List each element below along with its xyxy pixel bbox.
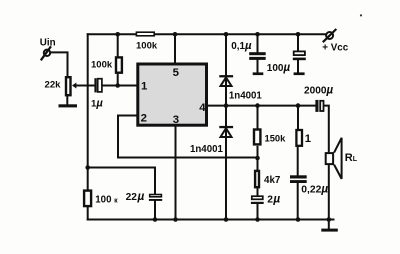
svg-text:5: 5 <box>173 67 180 79</box>
wire top bus left segment <box>88 33 136 35</box>
svg-text:22µ: 22µ <box>126 189 145 203</box>
svg-text:1: 1 <box>305 133 311 145</box>
node dots pin4 net <box>224 103 301 108</box>
capacitor 100u <box>293 51 306 75</box>
wire 4k7 to 2u <box>257 188 259 195</box>
wire 150k bottom lead <box>257 147 259 170</box>
op-amp U1 (IC block) <box>138 64 207 125</box>
diode D2 1n4001 <box>219 126 233 137</box>
svg-text:100k: 100k <box>136 40 158 51</box>
svg-text:0,1µ: 0,1µ <box>231 40 252 52</box>
node dots top bus <box>115 32 300 37</box>
resistor 150k <box>254 130 260 145</box>
wire 100u bottom lead <box>297 60 299 73</box>
wire wiper to 1u cap <box>76 85 94 87</box>
wire diode chain lead <box>225 34 227 219</box>
wire 1ohm top lead <box>297 106 299 129</box>
wire 1u cap to IC pin 1 <box>103 85 137 87</box>
wire bottom bus <box>88 219 334 221</box>
wire Uin terminal to pot <box>50 52 67 76</box>
svg-text:+ Vcc: + Vcc <box>322 43 348 54</box>
speaker RL <box>326 138 342 179</box>
svg-text:1n4001: 1n4001 <box>190 144 223 155</box>
svg-text:1: 1 <box>141 81 148 93</box>
svg-text:1n4001: 1n4001 <box>229 91 262 102</box>
wire 2000u to speaker <box>324 106 328 153</box>
capacitor 0,1u <box>249 52 266 75</box>
svg-text:100µ: 100µ <box>267 62 291 74</box>
svg-text:Uin: Uin <box>40 38 56 49</box>
svg-text:22k: 22k <box>45 79 62 90</box>
wire junction to 22u cap <box>88 168 155 194</box>
wire 0,1u top lead <box>257 34 259 52</box>
node 150k/4k7 junction <box>255 156 260 161</box>
terminal +Vcc <box>323 29 337 42</box>
wire pin3 lead <box>175 126 177 220</box>
wire 100k feedback bottom lead <box>87 207 89 219</box>
wire 0,22u to bus <box>297 183 299 220</box>
wire 100k input bottom lead <box>117 74 119 86</box>
svg-text:2: 2 <box>141 112 147 124</box>
resistor 1 ohm <box>296 130 302 146</box>
svg-text:4: 4 <box>199 102 206 114</box>
capacitor 1u <box>94 78 101 92</box>
node dots bottom bus <box>153 217 331 222</box>
resistor 4k7 <box>255 171 259 187</box>
wire 100k feedback top lead <box>87 168 89 190</box>
resistor 100k (feedback, bottom left) <box>84 191 91 207</box>
capacitor 2000u <box>315 100 323 112</box>
svg-text:100k: 100k <box>91 59 113 70</box>
wire top bus right segment <box>155 33 325 35</box>
svg-text:0,22µ: 0,22µ <box>301 182 328 195</box>
wire speaker to bus <box>328 165 330 220</box>
wire pin2 net <box>118 116 258 158</box>
wire left feedback rail <box>87 34 89 167</box>
svg-text:3: 3 <box>173 114 179 126</box>
svg-text:2µ: 2µ <box>267 192 280 206</box>
capacitor 2u <box>251 196 264 204</box>
svg-text:4k7: 4k7 <box>264 175 281 186</box>
node pin1/100k junction <box>115 83 120 88</box>
wire 1ohm bottom lead <box>297 147 299 176</box>
wire 2u to bus <box>257 204 259 220</box>
capacitor 0,22u <box>290 175 307 183</box>
terminal Uin <box>41 46 51 60</box>
resistor 100k (vertical, input) <box>116 57 122 72</box>
wire pin4 net <box>207 105 316 107</box>
wire 100k input top lead <box>117 34 119 56</box>
wire pin5 lead <box>174 34 176 63</box>
ground (bottom right) <box>321 229 338 232</box>
wire 100u top lead <box>297 34 299 50</box>
svg-text:1µ: 1µ <box>91 98 103 110</box>
wire 0,1u bottom lead <box>257 60 259 73</box>
speck artifact <box>360 14 362 16</box>
svg-text:2000µ: 2000µ <box>304 85 333 97</box>
node feedback junction <box>85 165 90 170</box>
wire 150k top lead <box>257 106 259 129</box>
wire ground stub right <box>328 220 330 230</box>
potentiometer 22k <box>66 77 76 95</box>
wire 22u to bus <box>154 201 156 220</box>
svg-text:150k: 150k <box>265 133 287 144</box>
ground (below pot) <box>59 104 78 107</box>
capacitor 22u <box>149 195 162 201</box>
wire pot ground stub <box>66 96 68 104</box>
diode D1 1n4001 <box>219 75 233 86</box>
resistor 100k (horizontal, top) <box>136 32 154 36</box>
